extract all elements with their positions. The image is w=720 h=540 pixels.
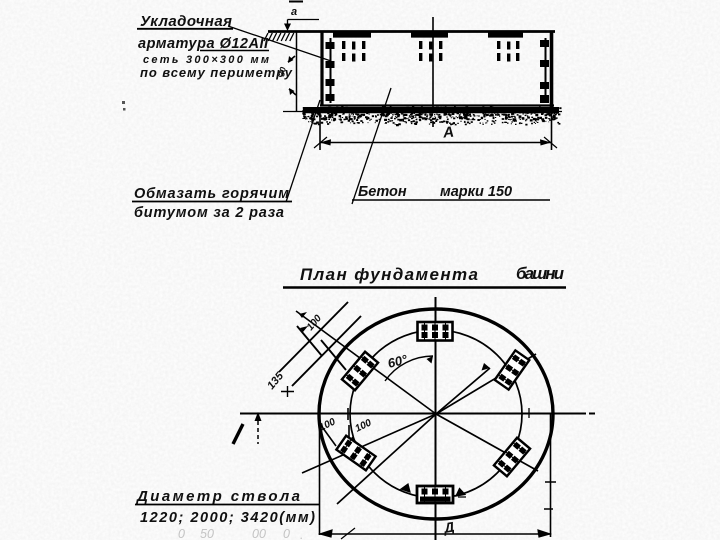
inner circle arrowheads near bottom group <box>401 484 466 497</box>
dim a arrow <box>284 24 291 32</box>
dim line A <box>320 142 551 144</box>
foundation step left edge <box>296 32 298 111</box>
bolt group top-right <box>495 350 530 389</box>
foundation body right wall <box>550 31 554 107</box>
faint footer marks <box>178 527 303 540</box>
ladder cross bottom-left 2 <box>352 437 368 459</box>
horizontal centre line <box>240 413 595 415</box>
svg-text:50: 50 <box>200 527 214 540</box>
svg-text:0: 0 <box>178 527 185 540</box>
beton leader <box>352 88 391 204</box>
right vertical rebar with hooks <box>545 38 547 103</box>
bottom dim line D <box>320 533 550 535</box>
foundation body bottom edge <box>320 104 554 106</box>
svg-text:План фундамента: План фундамента <box>300 265 478 284</box>
svg-text:башни: башни <box>516 264 565 283</box>
60 deg arc <box>385 356 433 381</box>
inner circle tick on centre line <box>528 408 530 418</box>
left margin specks <box>122 101 126 111</box>
ladder cross 1 <box>297 326 322 356</box>
svg-text:а: а <box>291 6 297 18</box>
section mark italic stroke <box>233 424 243 444</box>
underside line <box>283 111 562 113</box>
radial arrow top-right <box>436 368 490 414</box>
bolt group bottom-left <box>336 436 375 471</box>
small left dim arrows <box>288 56 296 95</box>
leader diametr stvola <box>337 414 436 504</box>
svg-text:.: . <box>300 528 303 540</box>
bolt group bottom <box>417 486 453 503</box>
svg-text:А: А <box>441 124 455 142</box>
foundation body left wall <box>320 31 323 106</box>
right extension line <box>551 107 553 150</box>
svg-text:арматура Ø12АII: арматура Ø12АII <box>138 36 269 52</box>
hatch band extra speckle <box>307 114 561 125</box>
outer circle <box>319 309 553 519</box>
svg-text:Бетон: Бетон <box>358 184 407 200</box>
bolt group top <box>418 322 453 341</box>
right ext ticks <box>544 482 556 509</box>
leader to mesh text <box>228 26 331 61</box>
hatch band speckle <box>302 107 561 127</box>
rebar dashes group 2 <box>419 41 442 62</box>
ground surface line <box>268 30 555 33</box>
dim a lines <box>288 20 320 29</box>
arc arrow <box>427 356 434 364</box>
rebar dashes group 1 <box>342 41 365 62</box>
right dim extension <box>550 413 552 537</box>
svg-text:марки 150: марки 150 <box>440 184 512 200</box>
svg-text:Укладочная: Укладочная <box>140 13 232 30</box>
svg-text:битумом за 2 раза: битумом за 2 раза <box>134 205 284 221</box>
radial line bottom-right <box>436 414 538 471</box>
inner bolt circle <box>350 330 522 498</box>
svg-text:Обмазать горячим: Обмазать горячим <box>134 186 289 202</box>
radial line top-right full <box>436 354 536 414</box>
bitumen leader <box>286 100 320 202</box>
ladder cross bottom-left 1 <box>320 424 336 446</box>
small plus tick <box>281 386 294 397</box>
left extension line <box>319 111 321 150</box>
ladder line 2 <box>292 316 361 386</box>
hatch band solid core <box>303 107 559 113</box>
radial line bottom-left <box>302 414 436 473</box>
section mark arrow <box>255 412 262 421</box>
svg-text:00: 00 <box>252 527 266 540</box>
dim A arrows <box>320 139 551 145</box>
ladder line 1 <box>279 302 348 372</box>
left vertical rebar with hooks <box>330 38 332 103</box>
vertical centre line <box>435 297 437 540</box>
dashed marks bottom-left <box>348 408 349 437</box>
svg-text:0: 0 <box>283 527 290 540</box>
section centre line <box>432 17 434 127</box>
bolt group bottom-right <box>494 438 530 477</box>
svg-text:по всему периметру: по всему периметру <box>140 65 293 80</box>
radial line top-left <box>296 311 436 414</box>
ladder cross 2 <box>321 340 346 370</box>
top edge artifact <box>289 1 303 3</box>
left dim extension <box>319 413 321 535</box>
bottom dim arrows <box>320 528 550 539</box>
ground hatch ticks <box>264 33 294 41</box>
ladder arrows <box>299 312 308 332</box>
bolt group top-left <box>342 352 378 391</box>
top anchor plate bars <box>333 32 523 38</box>
rebar dashes group 3 <box>497 41 519 62</box>
